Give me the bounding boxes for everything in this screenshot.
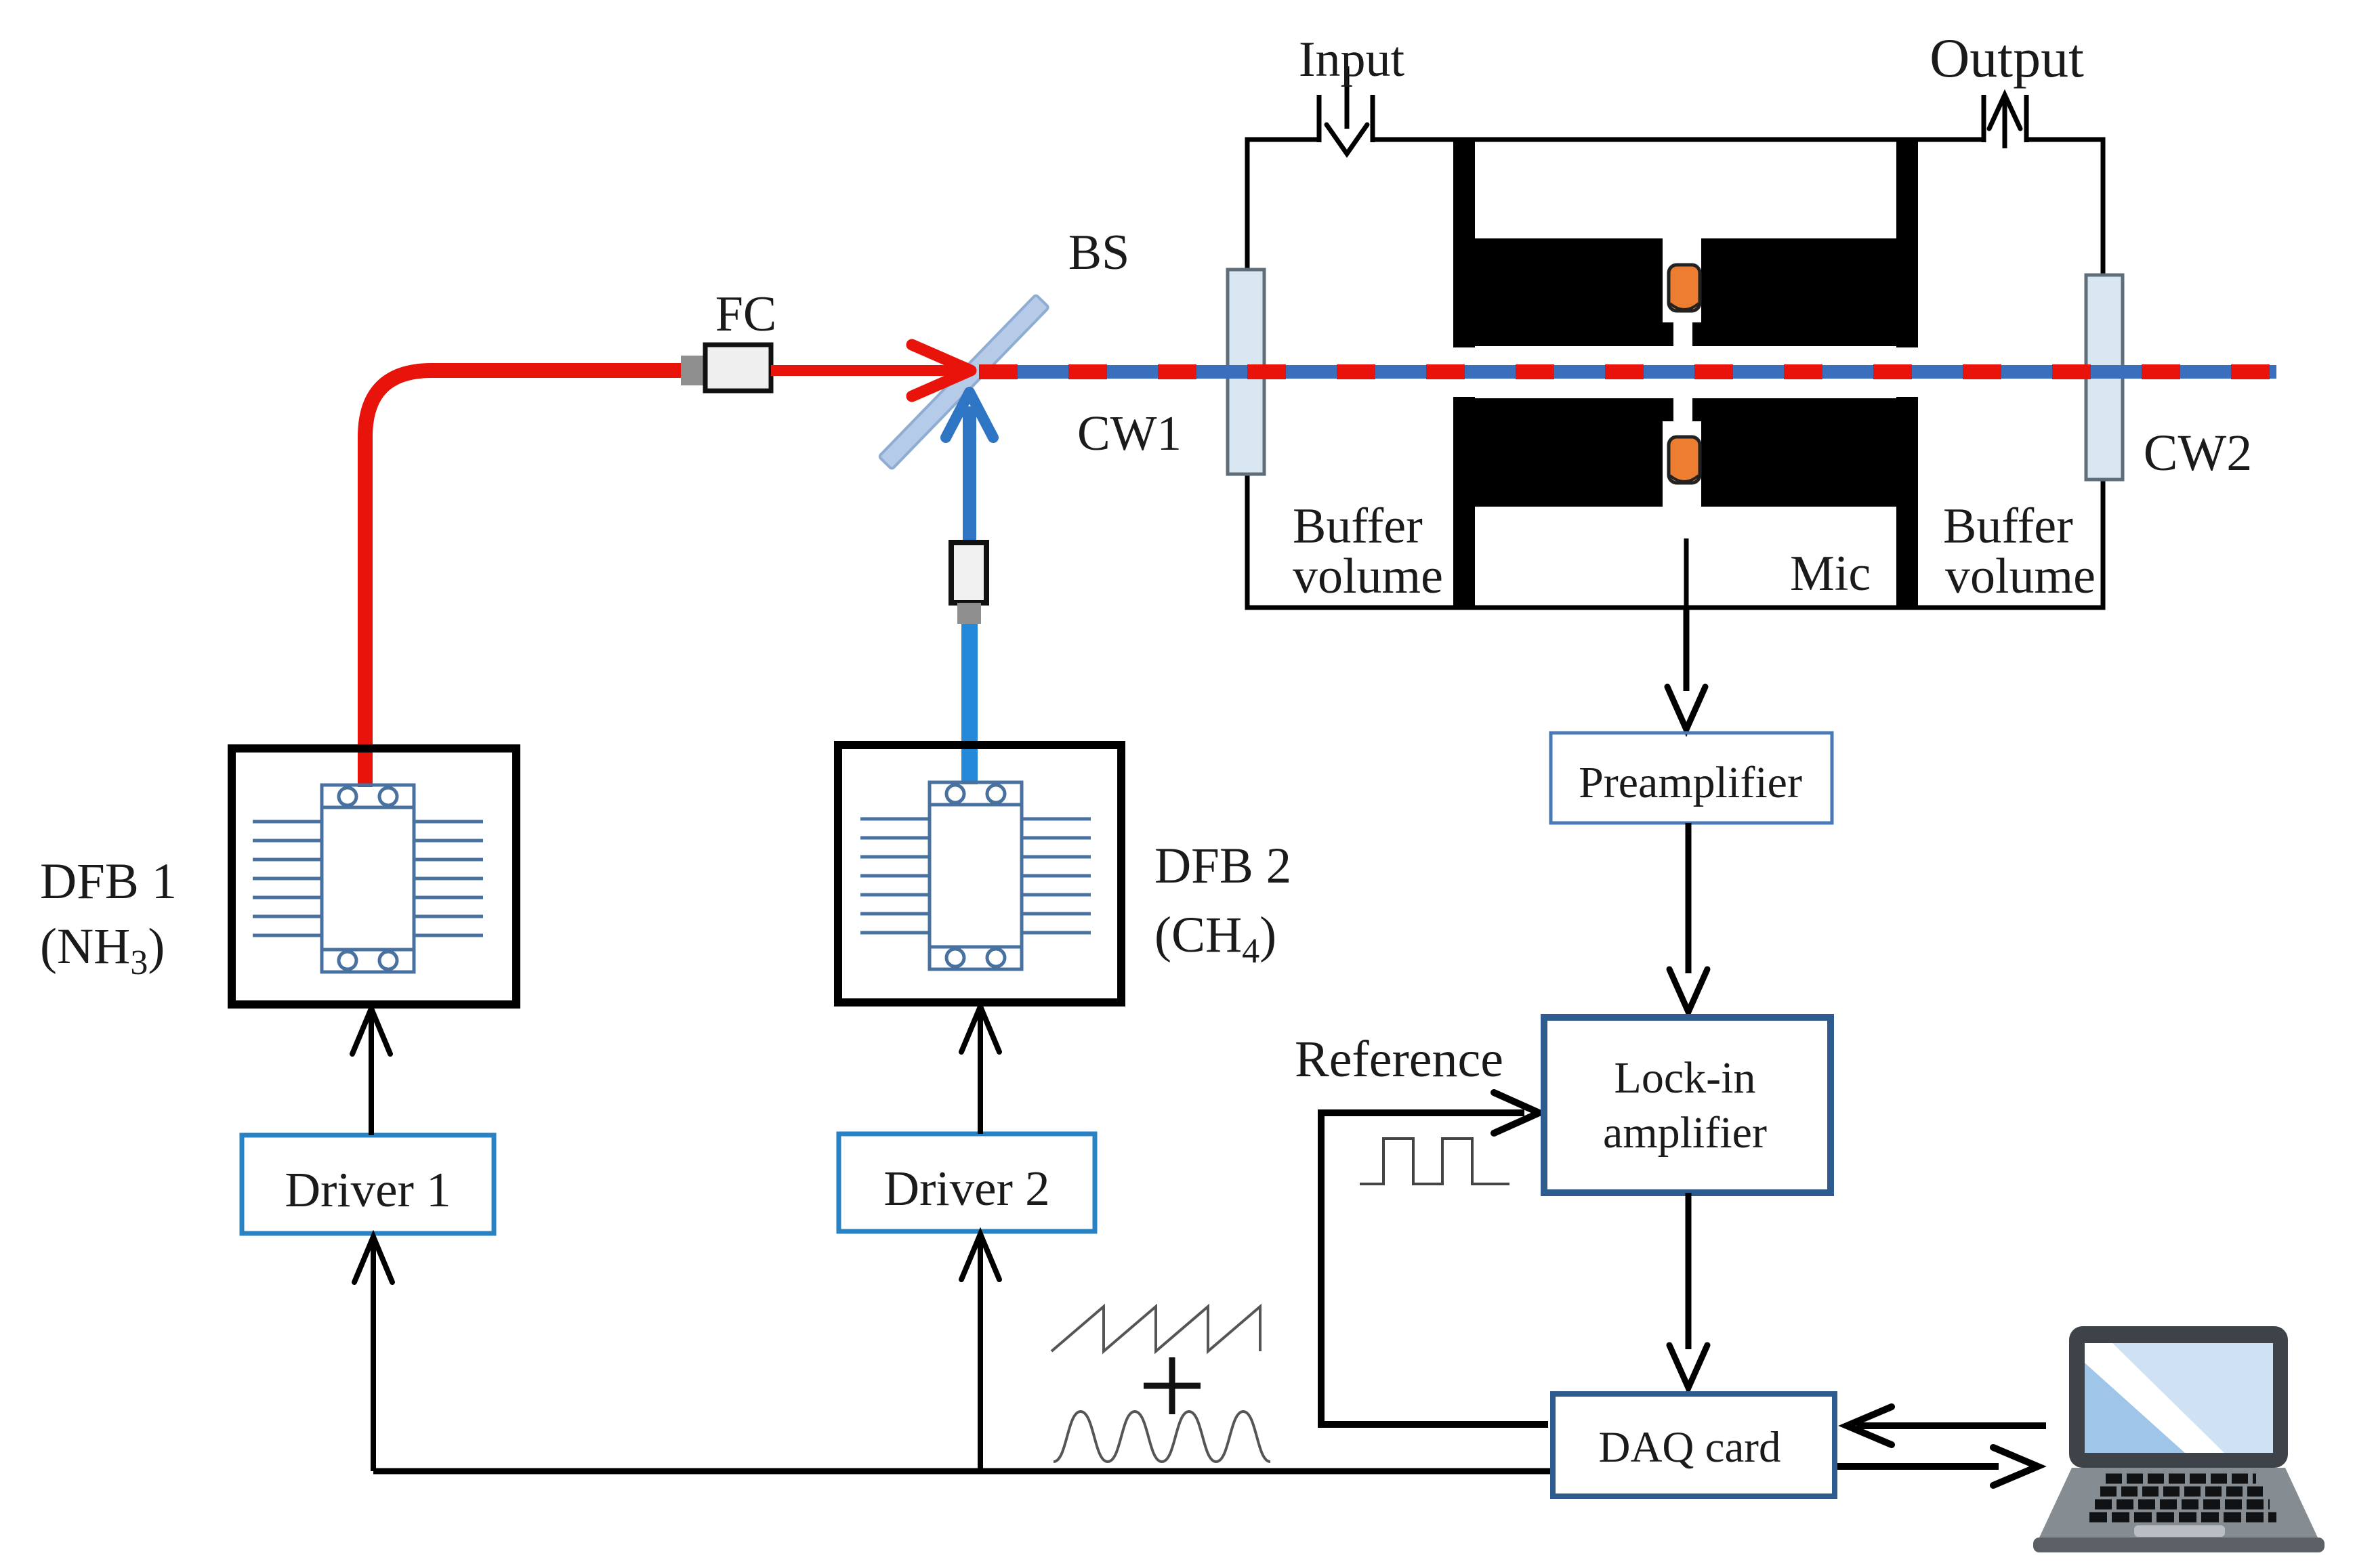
arrow Driver2 to DFB2 bbox=[961, 1007, 999, 1134]
cell window CW1 bbox=[1228, 270, 1264, 474]
blue fiber connector bbox=[951, 543, 986, 624]
DFB2 box bbox=[838, 745, 1121, 1002]
DFB1 label bbox=[40, 853, 177, 982]
Preamplifier box bbox=[1551, 733, 1832, 823]
laptop bbox=[2033, 1326, 2325, 1552]
svg-text:volume: volume bbox=[1945, 549, 2096, 604]
DFB2 label bbox=[1154, 838, 1291, 971]
square wave bbox=[1360, 1139, 1509, 1184]
svg-text:volume: volume bbox=[1293, 549, 1443, 604]
Buffer volume label (right) bbox=[1943, 499, 2096, 604]
beam splitter BS bbox=[879, 295, 1049, 469]
svg-text:CW1: CW1 bbox=[1077, 406, 1182, 461]
blue free-space beam up to BS bbox=[963, 406, 976, 589]
combined dashed beam (red dashes) bbox=[979, 364, 2276, 379]
svg-text:Reference: Reference bbox=[1295, 1031, 1503, 1088]
svg-text:Mic: Mic bbox=[1790, 546, 1871, 601]
svg-text:amplifier: amplifier bbox=[1603, 1108, 1767, 1158]
Driver 1 box bbox=[242, 1135, 494, 1233]
combined dashed beam (blue base line) bbox=[979, 365, 2276, 379]
resonator left wall bbox=[1453, 140, 1475, 347]
DAQ card box bbox=[1553, 1394, 1835, 1496]
DFB2 blue fiber bbox=[961, 624, 978, 784]
svg-text:BS: BS bbox=[1068, 225, 1130, 280]
arrow Preamplifier to Lock-in bbox=[1669, 823, 1707, 1012]
svg-text:Output: Output bbox=[1930, 27, 2084, 89]
bottom wire from drivers to DAQ bbox=[373, 1468, 1551, 1475]
photoacoustic cell outer box bbox=[1247, 134, 2103, 608]
top microphone bbox=[1669, 265, 1700, 311]
mic wire bbox=[1684, 538, 1689, 608]
svg-text:DFB 1: DFB 1 bbox=[40, 853, 177, 910]
arrow cell to Preamplifier bbox=[1667, 608, 1705, 729]
svg-text:DFB 2: DFB 2 bbox=[1154, 838, 1291, 894]
sine waveform bbox=[1054, 1412, 1270, 1462]
Driver 2 box bbox=[839, 1134, 1095, 1231]
svg-text:DAQ card: DAQ card bbox=[1599, 1423, 1781, 1472]
DFB1 laser diode icon bbox=[253, 785, 483, 972]
arrow wire into Driver2 bbox=[961, 1234, 999, 1471]
svg-text:Preamplifier: Preamplifier bbox=[1579, 758, 1802, 807]
Buffer volume label (left) bbox=[1293, 499, 1443, 604]
arrow laptop to DAQ (upper, points left) bbox=[1847, 1407, 2046, 1445]
svg-text:Driver 2: Driver 2 bbox=[883, 1161, 1049, 1216]
red beam arrowhead at BS bbox=[912, 345, 971, 396]
Lock-in amplifier box bbox=[1544, 1017, 1831, 1193]
input arrow (down into cell) bbox=[1327, 66, 1367, 154]
Lock-in amplifier label bbox=[1603, 1053, 1767, 1158]
DFB1 box bbox=[232, 748, 516, 1004]
output tube bbox=[1984, 95, 2026, 142]
output arrow (up out of cell) bbox=[1989, 95, 2020, 148]
bottom microphone bbox=[1669, 437, 1700, 483]
red free-space beam after FC bbox=[771, 365, 965, 376]
plus sign bbox=[1144, 1357, 1201, 1414]
blue beam arrowhead bbox=[946, 392, 993, 438]
fiber collimator FC body bbox=[681, 345, 771, 391]
input tube bbox=[1319, 95, 1373, 142]
resonator top band bbox=[1453, 237, 1918, 348]
svg-text:Driver 1: Driver 1 bbox=[285, 1162, 451, 1217]
svg-text:FC: FC bbox=[715, 287, 777, 342]
reference wire from DAQ to Lock-in bbox=[1321, 1113, 1548, 1424]
reference arrowhead bbox=[1494, 1093, 1539, 1133]
arrow wire into Driver1 bbox=[354, 1237, 392, 1471]
arrow Lock-in to DAQ bbox=[1669, 1193, 1707, 1388]
svg-text:CW2: CW2 bbox=[2144, 425, 2252, 482]
DFB1 red fiber bbox=[365, 370, 684, 787]
arrow Driver1 to DFB1 bbox=[352, 1009, 390, 1135]
DFB2 laser diode icon bbox=[860, 782, 1091, 969]
svg-text:Buffer: Buffer bbox=[1293, 499, 1423, 554]
svg-text:Lock-in: Lock-in bbox=[1614, 1053, 1756, 1103]
svg-text:Input: Input bbox=[1299, 32, 1405, 87]
resonator right wall bbox=[1896, 140, 1918, 347]
sawtooth waveform bbox=[1051, 1307, 1260, 1351]
resonator bottom band bbox=[1453, 397, 1918, 508]
arrow DAQ to laptop (lower, points right) bbox=[1837, 1447, 2038, 1485]
cell window CW2 bbox=[2086, 275, 2123, 480]
svg-text:Buffer: Buffer bbox=[1943, 499, 2073, 554]
